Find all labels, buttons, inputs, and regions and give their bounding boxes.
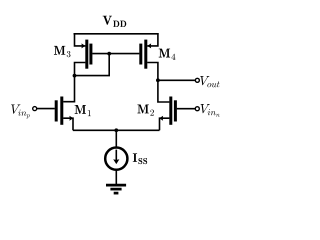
nmos M2 gate bar xyxy=(174,100,177,121)
pmos M3 gate bar xyxy=(89,44,92,65)
label M4 xyxy=(159,49,176,60)
terminal Vout circle xyxy=(195,78,199,82)
wire gate tap vertical xyxy=(75,54,110,76)
ISS arrow shaft xyxy=(115,150,117,161)
M3 source arrow xyxy=(81,43,85,48)
wire M1 source lead xyxy=(63,118,73,130)
wire M4 drain lead + right trunk xyxy=(147,63,169,103)
wire Vinp to M1 gate xyxy=(37,108,55,110)
label Vout xyxy=(200,76,219,87)
label M1 xyxy=(75,105,91,116)
label Vinp xyxy=(11,105,30,119)
current source ISS circle xyxy=(105,148,127,170)
M4 source arrow xyxy=(147,43,151,48)
pmos M3 channel bar xyxy=(85,40,88,69)
node gate tap dot xyxy=(107,52,111,56)
VDD rail xyxy=(74,33,159,35)
node M3 drain dot xyxy=(73,74,77,78)
pmos M4 channel bar xyxy=(144,40,147,69)
label ISS xyxy=(133,153,147,164)
label M3 xyxy=(54,46,71,57)
wire VDD left drop xyxy=(75,33,86,46)
node tail dot xyxy=(114,128,118,132)
label VDD xyxy=(103,16,127,27)
wire ISS to ground xyxy=(115,170,117,184)
ground bar 3 xyxy=(114,192,119,195)
M2 source arrow xyxy=(159,116,163,121)
wire output xyxy=(158,79,195,81)
ISS arrowhead xyxy=(113,159,119,164)
terminal Vinp circle xyxy=(33,107,37,111)
label M2 xyxy=(137,105,153,116)
wire gate line M3-M4 xyxy=(92,53,139,55)
wire tail to ISS xyxy=(115,130,117,147)
wire VDD right drop xyxy=(147,33,158,46)
ground bar 2 xyxy=(110,188,121,191)
pmos M4 gate bar xyxy=(139,44,142,65)
node output dot xyxy=(156,78,160,82)
wire M2 gate to Vinn xyxy=(177,108,196,110)
wire M3 drain lead + left trunk xyxy=(63,63,85,102)
wire M2 source lead xyxy=(160,118,170,130)
label Vinn xyxy=(201,104,220,117)
M1 source arrow xyxy=(69,116,73,121)
terminal Vinn circle xyxy=(195,107,199,111)
nmos M1 gate bar xyxy=(55,100,58,121)
nmos M1 channel bar xyxy=(60,97,63,125)
ground bar 1 xyxy=(106,184,126,187)
nmos M2 channel bar xyxy=(169,97,172,125)
wire tail rail xyxy=(73,129,160,131)
